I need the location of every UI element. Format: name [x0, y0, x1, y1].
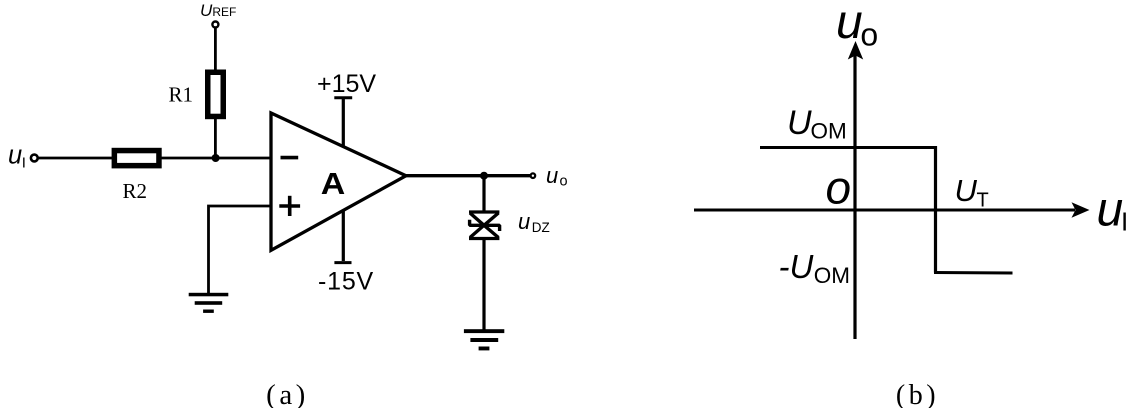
wire U_REF terminal to R1: [214, 28, 217, 71]
svg-text:(b): (b): [896, 380, 939, 408]
svg-text:OM: OM: [814, 263, 850, 288]
svg-text:-15V: -15V: [318, 268, 374, 296]
wire u_I terminal to R2: [39, 157, 114, 160]
y-axis u_o with arrow: [848, 41, 863, 339]
svg-text:A: A: [321, 166, 346, 201]
svg-text:(a): (a): [266, 379, 309, 408]
svg-text:OM: OM: [811, 118, 847, 143]
wire noninverting input to ground: [209, 206, 272, 294]
wire output node to zener: [482, 176, 485, 212]
svg-text:-U: -U: [779, 248, 814, 285]
junction node N1: [212, 154, 220, 162]
svg-text:+15V: +15V: [317, 70, 376, 98]
svg-text:u: u: [836, 0, 863, 49]
svg-text:REF: REF: [212, 5, 236, 19]
label U_OM: [787, 104, 847, 143]
ground G1: [189, 293, 229, 313]
label U_T: [955, 173, 989, 211]
svg-text:u: u: [546, 163, 558, 188]
svg-text:u: u: [1097, 184, 1124, 237]
svg-text:U: U: [955, 173, 978, 208]
svg-text:DZ: DZ: [532, 220, 550, 235]
junction node output: [480, 172, 488, 180]
svg-text:I: I: [1121, 207, 1128, 237]
wire zener to ground G2: [482, 239, 485, 331]
x-axis u_I with arrow: [694, 202, 1090, 217]
terminal U_REF: [212, 22, 218, 28]
label u_o output: [546, 163, 568, 190]
+15V supply bar: [334, 96, 352, 99]
label u_I input: [8, 142, 26, 172]
ground G2: [464, 329, 504, 350]
wire R2 to inverting input: [161, 157, 273, 160]
resistor R1: [208, 72, 224, 116]
svg-text:o: o: [560, 174, 568, 190]
svg-text:u: u: [8, 142, 22, 170]
label u_DZ: [518, 209, 550, 235]
resistor R2: [114, 151, 159, 166]
wire op-amp bottom to -15V: [342, 210, 345, 261]
svg-text:R1: R1: [169, 83, 194, 107]
-15V supply bar: [334, 261, 351, 264]
transfer curve lower level -U_OM: [934, 271, 1013, 275]
label u_I (x-axis): [1097, 184, 1129, 237]
zener diode U_DZ (bidirectional): [469, 212, 500, 239]
label u_o (y-axis): [836, 0, 878, 53]
svg-text:o: o: [860, 17, 878, 53]
wire R1 to node N1: [214, 118, 217, 159]
op-amp minus sign: [281, 156, 299, 160]
svg-text:R2: R2: [123, 179, 148, 203]
svg-text:U: U: [200, 1, 213, 20]
transfer curve upper level +U_OM: [760, 146, 936, 149]
op-amp plus sign: [279, 196, 300, 216]
op-amp A triangle: [271, 113, 406, 250]
input terminal u_I: [31, 155, 38, 162]
label U_REF: [200, 1, 236, 20]
wire op-amp output: [406, 174, 531, 177]
svg-text:o: o: [826, 162, 852, 214]
svg-text:u: u: [518, 209, 530, 234]
svg-text:I: I: [22, 154, 26, 171]
label -U_OM: [779, 248, 851, 288]
svg-text:T: T: [977, 190, 989, 212]
output terminal u_o: [531, 173, 536, 178]
svg-text:U: U: [787, 104, 812, 142]
wire +15V to op-amp top: [342, 98, 345, 148]
transfer curve step at U_T: [934, 146, 937, 273]
